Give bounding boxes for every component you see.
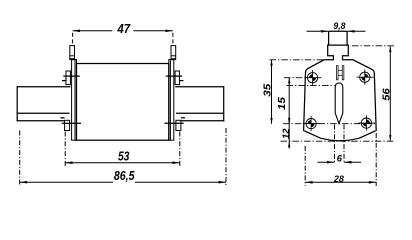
right upper contact clip [166, 71, 184, 85]
svg-text:86,5: 86,5 [114, 169, 135, 183]
right blade contact (side view) [175, 86, 224, 121]
centre lines (dash-dot) [270, 46, 395, 141]
top blade tab (end view) [329, 31, 348, 45]
left end plate [72, 60, 77, 141]
central slot [335, 83, 343, 124]
dimension 35 [270, 60, 272, 124]
svg-text:53: 53 [118, 149, 130, 163]
dimension 15 [288, 78, 290, 124]
left grip lug tab [70, 46, 75, 60]
centre line blade slot [287, 85, 335, 87]
dimension 28 [305, 133, 376, 186]
svg-text:6: 6 [337, 153, 343, 163]
rivet hole top-right [357, 69, 374, 84]
svg-text:56: 56 [381, 88, 392, 101]
striker indicator (H shape) [336, 66, 343, 80]
dimension 86,5 [20, 128, 226, 186]
rivet hole top-left [304, 70, 321, 85]
left lower contact clip [61, 118, 82, 131]
svg-text:47: 47 [116, 22, 131, 36]
dimension 47 [73, 30, 173, 46]
svg-text:15: 15 [277, 97, 288, 111]
centre line upper left (lug level) [270, 59, 325, 61]
dimension 56 [389, 46, 391, 140]
dimension 9,8 [307, 30, 366, 33]
right grip lug tab [171, 46, 176, 60]
dimension 53 [65, 132, 180, 167]
svg-text:12: 12 [281, 128, 291, 139]
left upper contact clip [62, 71, 80, 85]
centre line upper right (boss level) [352, 45, 394, 47]
rivet hole bottom-right [358, 115, 375, 130]
right end plate [169, 60, 174, 141]
svg-text:28: 28 [333, 174, 345, 184]
dimension 12 [288, 117, 290, 148]
left blade contact (side view) [17, 86, 71, 121]
right lower contact clip [165, 118, 186, 131]
svg-text:9,8: 9,8 [333, 21, 345, 31]
centre line top holes left [284, 77, 305, 79]
centre line bottom holes [283, 123, 375, 125]
dimension 6 [318, 125, 362, 164]
end plate outline [304, 45, 377, 141]
rivet hole bottom-left [303, 116, 320, 131]
fuse body [77, 64, 169, 141]
svg-text:35: 35 [263, 83, 274, 97]
centre line bottom edge [281, 140, 395, 142]
